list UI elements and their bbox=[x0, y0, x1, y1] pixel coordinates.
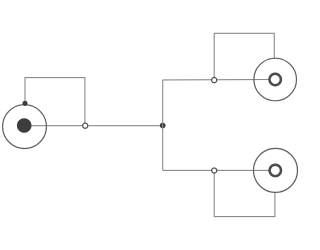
junction node: main splitter dot bbox=[160, 123, 166, 129]
connector J3 lower-right RCA jack center socket ring bbox=[270, 165, 281, 176]
wire: top shield loop up and into top of upper-right jack bbox=[214, 33, 274, 77]
node: open circle terminal on bottom branch bbox=[212, 168, 217, 173]
connector J2 upper-right RCA jack outer body circle bbox=[254, 58, 297, 101]
connector J2 upper-right RCA jack center socket ring bbox=[270, 74, 281, 85]
connector J3 lower-right RCA jack outer body circle bbox=[254, 148, 298, 192]
wire: main signal line from left plug tip to junction bbox=[24, 125, 163, 127]
connector J1 left RCA plug outer body circle bbox=[3, 105, 47, 149]
node: open circle terminal on left branch bbox=[83, 123, 88, 128]
wire: bottom branch horizontal to lower-right jack bbox=[163, 169, 269, 171]
node: open circle terminal on top branch bbox=[212, 78, 217, 83]
wire: bottom shield loop down and into bottom of lower-right jack bbox=[214, 173, 275, 216]
junction dot on left plug body (shield tap) bbox=[22, 101, 27, 106]
wire: top branch horizontal to upper-right jack bbox=[163, 79, 269, 81]
wire: vertical splitter bus bbox=[162, 80, 164, 170]
connector J1 left RCA plug center pin (filled) bbox=[17, 118, 32, 133]
wire: left shield loop (dot up, across, down to shield node) bbox=[25, 78, 85, 123]
